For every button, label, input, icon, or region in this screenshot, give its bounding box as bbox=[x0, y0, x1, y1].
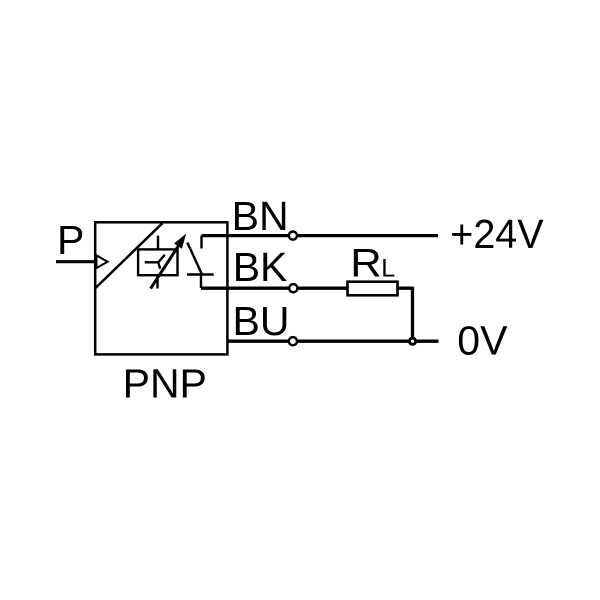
svg-text:0V: 0V bbox=[457, 318, 508, 364]
svg-text:BN: BN bbox=[232, 193, 289, 239]
svg-text:PNP: PNP bbox=[123, 361, 207, 407]
svg-text:P: P bbox=[57, 217, 84, 263]
svg-text:+24V: +24V bbox=[450, 211, 544, 257]
svg-text:R: R bbox=[350, 242, 382, 286]
svg-text:BU: BU bbox=[233, 298, 290, 344]
svg-text:BK: BK bbox=[233, 244, 288, 290]
svg-text:L: L bbox=[381, 255, 395, 283]
